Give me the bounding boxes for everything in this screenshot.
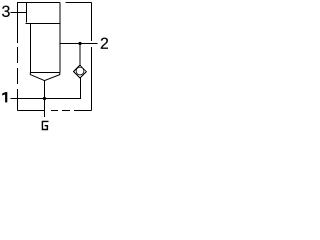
check valve V1 ball bbox=[76, 67, 84, 75]
wire bottom drain horizontal dashed bbox=[18, 110, 92, 112]
wire left drain vertical solid part bbox=[17, 3, 19, 44]
wire top channel right segment bbox=[66, 2, 92, 4]
port label 1 bbox=[2, 92, 7, 102]
port label G bbox=[42, 121, 48, 129]
wire check valve top riser bbox=[79, 44, 81, 66]
valve body box top edge bbox=[26, 23, 60, 25]
wire gauge stub from funnel apex to G bbox=[44, 81, 46, 118]
wire pilot drop into valve body top bbox=[26, 3, 28, 23]
funnel spring seat under valve body bbox=[30, 73, 60, 81]
background bbox=[0, 0, 108, 131]
junction dot on node 2 wire bbox=[78, 42, 81, 45]
check valve V1 diamond bbox=[74, 65, 87, 78]
wire right loop vertical upper bbox=[91, 3, 93, 42]
wire right loop vertical lower bbox=[91, 47, 93, 111]
valve body box left edge bbox=[30, 24, 32, 73]
valve body box right edge with top channel drop bbox=[59, 3, 61, 73]
junction dot on node 1 wire bbox=[43, 97, 46, 100]
wire left drain vertical dashed part bbox=[17, 47, 19, 111]
valve body box bottom edge bbox=[31, 72, 61, 74]
node 1 port wire with riser to check valve bbox=[11, 78, 81, 99]
wire top channel left segment bbox=[17, 2, 60, 4]
node 3 port wire bbox=[11, 12, 27, 14]
node 2 port wire bbox=[60, 43, 98, 45]
port label 3 bbox=[2, 6, 10, 17]
port label 2 bbox=[101, 38, 108, 49]
